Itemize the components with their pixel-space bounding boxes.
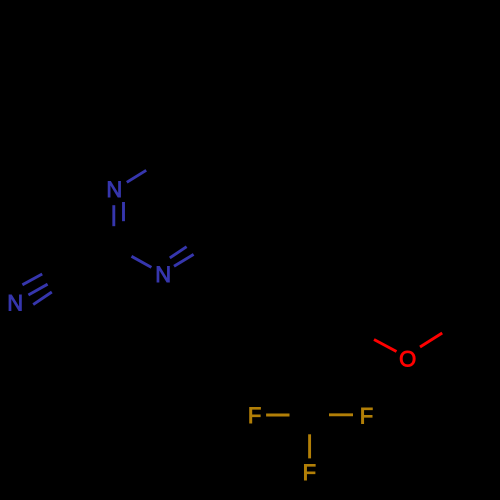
svg-text:N: N bbox=[155, 262, 171, 287]
svg-text:O: O bbox=[399, 346, 416, 371]
svg-text:N: N bbox=[106, 177, 122, 202]
svg-text:F: F bbox=[248, 403, 261, 428]
svg-text:F: F bbox=[360, 403, 373, 428]
svg-text:N: N bbox=[7, 290, 23, 315]
svg-text:F: F bbox=[303, 460, 316, 485]
